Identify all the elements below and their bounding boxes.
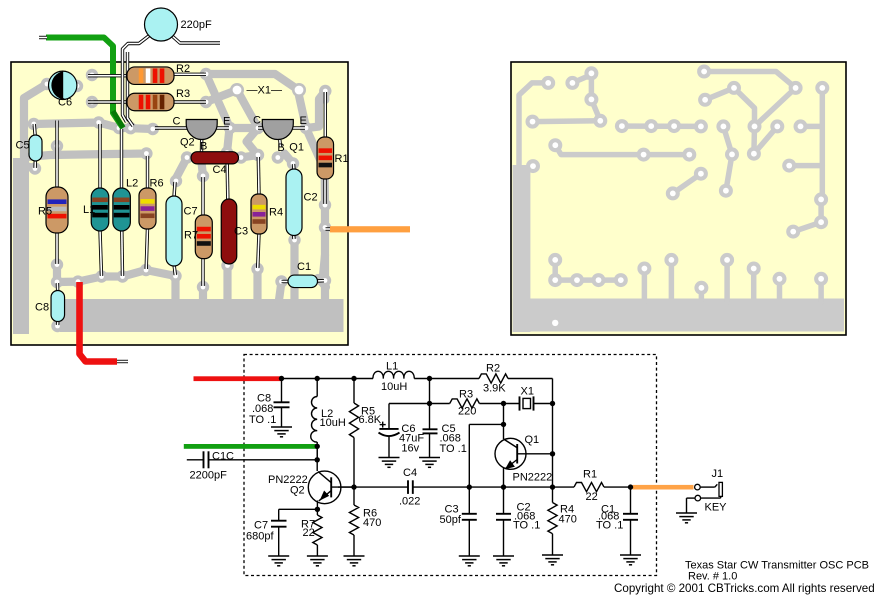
- svg-text:X1: X1: [521, 386, 534, 398]
- svg-text:.022: .022: [399, 496, 420, 508]
- svg-text:16v: 16v: [401, 443, 419, 455]
- svg-text:Q1: Q1: [525, 434, 540, 446]
- svg-text:TO .1: TO .1: [440, 443, 467, 455]
- svg-text:R5: R5: [38, 206, 52, 218]
- svg-text:680pf: 680pf: [246, 530, 274, 542]
- svg-text:—X1—: —X1—: [247, 85, 282, 97]
- svg-text:R3: R3: [176, 88, 190, 100]
- svg-text:C: C: [253, 115, 261, 127]
- svg-text:Rev. # 1.0: Rev. # 1.0: [688, 571, 737, 583]
- svg-text:R6: R6: [150, 178, 164, 190]
- svg-text:C1C: C1C: [212, 451, 234, 463]
- svg-text:C: C: [173, 116, 181, 128]
- svg-text:KEY: KEY: [705, 502, 728, 514]
- svg-text:C1: C1: [297, 261, 311, 273]
- svg-text:C2: C2: [304, 192, 318, 204]
- svg-text:TO .1: TO .1: [596, 520, 623, 532]
- svg-text:R2: R2: [176, 63, 190, 75]
- svg-text:TO .1: TO .1: [249, 414, 276, 426]
- svg-text:B: B: [200, 141, 207, 153]
- svg-text:Q1: Q1: [289, 142, 304, 154]
- svg-text:470: 470: [363, 517, 381, 529]
- svg-text:TO .1: TO .1: [513, 520, 540, 532]
- svg-text:470: 470: [559, 514, 577, 526]
- svg-text:C7: C7: [184, 206, 198, 218]
- svg-text:L2: L2: [126, 178, 138, 190]
- svg-text:3.9K: 3.9K: [483, 383, 506, 395]
- svg-text:10uH: 10uH: [320, 417, 346, 429]
- svg-text:C8: C8: [35, 302, 49, 314]
- svg-text:C4: C4: [213, 164, 227, 176]
- svg-text:50pf: 50pf: [440, 514, 462, 526]
- svg-text:22: 22: [586, 491, 598, 503]
- svg-text:C5: C5: [16, 140, 30, 152]
- svg-text:R3: R3: [459, 389, 473, 401]
- svg-text:L1: L1: [83, 204, 95, 216]
- svg-text:B: B: [277, 142, 284, 154]
- svg-text:10uH: 10uH: [381, 381, 407, 393]
- svg-text:6.8K: 6.8K: [359, 414, 382, 426]
- svg-text:R4: R4: [269, 207, 283, 219]
- svg-text:220: 220: [458, 406, 476, 418]
- svg-text:J1: J1: [712, 468, 724, 480]
- svg-text:Q2: Q2: [290, 485, 305, 497]
- svg-text:22: 22: [303, 527, 315, 539]
- svg-text:L1: L1: [386, 361, 398, 373]
- svg-text:R1: R1: [335, 153, 349, 165]
- svg-text:E: E: [223, 116, 230, 128]
- svg-text:E: E: [300, 115, 307, 127]
- svg-text:C3: C3: [234, 226, 248, 238]
- svg-text:R2: R2: [486, 363, 500, 375]
- svg-text:PN2222: PN2222: [513, 472, 553, 484]
- svg-text:Q2: Q2: [180, 137, 195, 149]
- svg-text:R7: R7: [184, 230, 198, 242]
- svg-text:Copyright © 2001 CBTricks.com: Copyright © 2001 CBTricks.com All rights…: [614, 582, 875, 595]
- svg-text:2200pF: 2200pF: [190, 470, 228, 482]
- svg-text:R1: R1: [583, 469, 597, 481]
- svg-text:.068: .068: [252, 403, 273, 415]
- svg-text:C4: C4: [403, 467, 417, 479]
- svg-text:220pF: 220pF: [181, 19, 212, 31]
- svg-text:C6: C6: [58, 97, 72, 109]
